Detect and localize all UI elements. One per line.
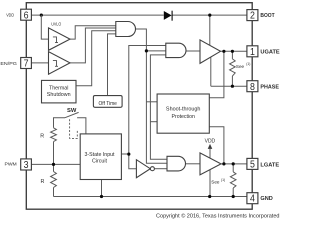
wire LGATE feedback to shoot-through right stub 2 <box>209 127 224 164</box>
svg-text:See: See <box>236 64 245 69</box>
svg-text:8: 8 <box>250 82 255 93</box>
node GND stub dot <box>100 195 103 198</box>
inverter U7 bubble <box>150 167 154 171</box>
wire EN comparator output to AND U3 input 2 <box>70 28 116 63</box>
wire PWM node to R2 top <box>53 164 55 171</box>
off time block <box>93 96 122 108</box>
svg-text:VDD: VDD <box>6 12 15 17</box>
hysteresis symbol U2 <box>53 61 58 67</box>
wire VDD to UVLO comparator input <box>41 15 48 39</box>
wire LGATE node to resistor R4 <box>232 164 234 172</box>
svg-text:3-State Input: 3-State Input <box>85 152 116 158</box>
diode D1 cathode bar <box>171 11 173 21</box>
node UGATE dot 2 <box>231 50 234 53</box>
wire BOOT junction to driver U5 top <box>209 15 211 46</box>
node VDD junction <box>40 14 43 17</box>
wire 3-state output riser to AND U4 input 1 <box>129 46 166 155</box>
svg-text:VDD: VDD <box>205 138 216 144</box>
thermal shutdown block <box>42 80 77 103</box>
node LGATE dot 1 <box>222 162 225 165</box>
wire R3 bottom to PHASE node <box>231 76 233 86</box>
wire UGATE: driver U5 output to pin 1 <box>221 50 247 52</box>
AND gate U4 <box>166 43 186 57</box>
pin 4 box <box>247 193 258 204</box>
wire node A to AND U4 input 2 <box>146 50 165 52</box>
wire shoot-through left stub 2 <box>150 121 157 123</box>
wire VDD rail to BOOT <box>31 14 247 16</box>
node GND resistor dot <box>232 195 235 198</box>
svg-text:LGATE: LGATE <box>260 162 279 168</box>
svg-text:R: R <box>41 179 45 185</box>
svg-text:1: 1 <box>250 47 255 58</box>
wire node B to inverter input <box>129 154 137 169</box>
svg-text:GND: GND <box>260 196 273 202</box>
shoot-through protection block <box>157 94 209 133</box>
svg-text:UVLO: UVLO <box>51 22 61 27</box>
svg-text:SW: SW <box>67 108 76 114</box>
resistor R2 <box>51 172 57 188</box>
svg-text:PHASE: PHASE <box>260 85 279 91</box>
resistor R4 LGATE-GND <box>230 172 236 188</box>
inverter U7 <box>136 160 150 178</box>
wire inverter output to AND U8 input 2 <box>154 168 167 170</box>
wire R4 bottom to GND rail <box>232 188 234 197</box>
svg-text:Shoot-through: Shoot-through <box>166 107 201 113</box>
svg-text:3: 3 <box>24 160 29 171</box>
hysteresis symbol U1 <box>53 37 58 43</box>
wire PWM pin to 3-state input <box>31 163 80 165</box>
node LGATE dot 2 <box>232 162 235 165</box>
wire 3-state bottom stub to GND rail <box>101 180 103 197</box>
svg-text:4: 4 <box>250 194 255 205</box>
3-state input circuit block <box>80 134 121 180</box>
svg-text:PWM: PWM <box>5 161 17 166</box>
VDD arrow head for driver U6 <box>208 144 213 149</box>
wire LGATE: driver U6 output to pin 5 <box>221 163 247 165</box>
wire R1 bottom to PWM node <box>53 142 55 165</box>
svg-text:Circuit: Circuit <box>92 159 108 165</box>
svg-text:2: 2 <box>250 11 255 22</box>
svg-text:UGATE: UGATE <box>260 49 280 55</box>
node PHASE dot <box>231 85 234 88</box>
AND gate U8 <box>167 156 186 171</box>
svg-text:5: 5 <box>250 160 255 171</box>
node B dot 3-state output <box>127 153 130 156</box>
wire 3-state output to node B <box>121 153 128 155</box>
svg-text:(1): (1) <box>221 178 225 182</box>
svg-text:R: R <box>40 134 44 140</box>
svg-text:7: 7 <box>24 59 29 70</box>
svg-text:Shutdown: Shutdown <box>47 92 71 98</box>
svg-text:Off Time: Off Time <box>99 101 118 107</box>
wire resistor R1 top to switch SW <box>54 118 66 128</box>
wire UGATE node to resistor R3 <box>231 51 233 59</box>
wire driver U6 bottom to GND rail <box>209 170 211 197</box>
pin 6 box <box>21 9 32 20</box>
wire AND U8 output to driver U6 <box>186 163 201 165</box>
wire UVLO comparator output to AND U3 input 1 <box>70 26 116 39</box>
node A dot AND output <box>145 49 148 52</box>
diode D1 <box>164 11 172 20</box>
svg-text:Protection: Protection <box>172 114 195 120</box>
op-amp U2 EN/PG comparator <box>49 52 71 75</box>
node UGATE dot 1 <box>222 50 225 53</box>
node PWM junction <box>52 163 55 166</box>
wire node A down to AND U8 input 2 <box>146 51 167 163</box>
wire EN/PG pin to comparator input <box>31 62 48 64</box>
wire switch right contact to 3-state top <box>77 118 86 134</box>
driver U6 LGATE buffer <box>200 153 221 175</box>
wire GND rail to pin 4 <box>54 196 247 198</box>
node BOOT junction <box>208 14 211 17</box>
pin 1 box <box>247 46 258 57</box>
wire driver U5 bottom to PHASE <box>210 57 212 86</box>
svg-text:6: 6 <box>24 10 29 21</box>
wire shoot-through to AND U4 input 3 and AND U8 input 1 <box>150 55 167 159</box>
pin 8 box <box>247 81 258 92</box>
pin 2 box <box>247 10 258 21</box>
svg-text:EN/PG: EN/PG <box>0 61 17 66</box>
wire off-time to AND U3 input 4 <box>108 34 116 96</box>
svg-text:Copyright © 2016, Texas Instru: Copyright © 2016, Texas Instruments Inco… <box>156 212 280 219</box>
dashed box around switch SW <box>70 119 78 138</box>
svg-text:(1): (1) <box>246 62 250 66</box>
op-amp U1 UVLO comparator <box>49 28 71 50</box>
wire AND U3 output to node A <box>136 29 147 51</box>
svg-text:BOOT: BOOT <box>260 13 275 19</box>
switch SW blade <box>65 112 79 117</box>
AND gate U3 <box>116 22 136 37</box>
svg-text:See: See <box>211 180 220 185</box>
IC boundary <box>26 3 252 210</box>
wire VDD arrow stem to driver U6 <box>209 149 211 159</box>
pin 3 box <box>21 159 32 170</box>
wire tap to shoot-through input 1 <box>146 101 157 103</box>
pin 5 box <box>247 158 258 169</box>
node GND driver return dot <box>208 195 211 198</box>
pin 7 box <box>21 58 32 69</box>
wire thermal shutdown output to AND U3 input 3 <box>76 31 116 86</box>
resistor R1 <box>51 128 57 142</box>
resistor R3 UGATE-PHASE <box>230 59 236 76</box>
wire PHASE rail to pin 8 <box>211 85 247 87</box>
wire UGATE feedback to shoot-through right stub 1 <box>209 51 224 98</box>
wire AND U4 output to driver U5 <box>186 50 200 52</box>
svg-text:Thermal: Thermal <box>49 85 68 91</box>
wire R2 bottom to GND rail <box>53 188 55 197</box>
driver U5 UGATE buffer <box>200 40 221 64</box>
